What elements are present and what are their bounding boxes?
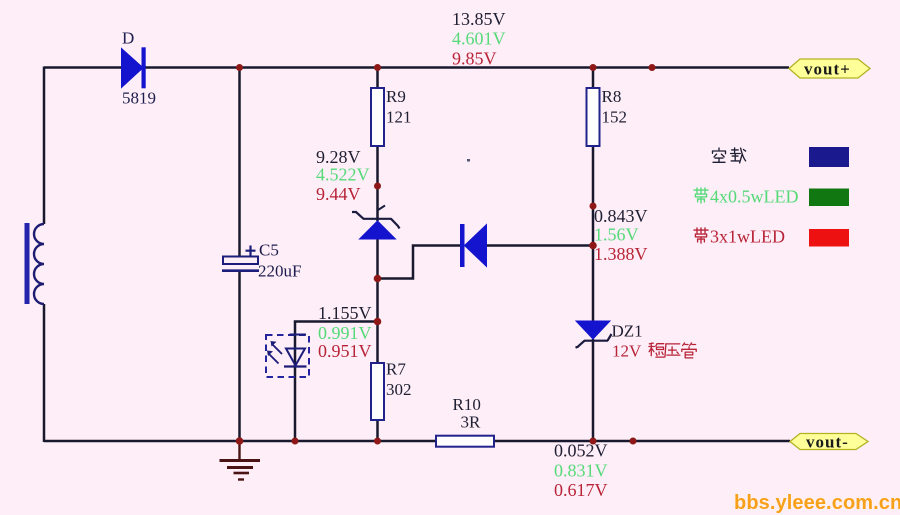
port vout- [790, 433, 868, 452]
legend swatch green [809, 189, 849, 207]
optocoupler U2 dashed box [266, 335, 309, 377]
svg-text:302: 302 [386, 380, 412, 399]
resistor R10 [436, 436, 494, 447]
legend label 空载 [713, 148, 746, 163]
junction dot top R8 [590, 64, 597, 71]
junction dot bottom DZ1 [590, 438, 597, 445]
svg-text:0.843V: 0.843V [594, 206, 648, 226]
resistor R9 [371, 88, 384, 146]
wire optocoupler branch [295, 322, 378, 442]
voltage labels bottom (0.052V/0.831V/0.617V) [554, 441, 608, 501]
wire bottom rail [44, 440, 790, 443]
svg-text:13.85V: 13.85V [452, 9, 506, 29]
svg-text:C5: C5 [259, 241, 279, 260]
svg-text:R9: R9 [386, 87, 406, 106]
junction dot diode node [589, 242, 597, 250]
wire TL431 to middle diode [378, 246, 463, 279]
svg-text:D: D [122, 29, 134, 48]
svg-text:12V: 12V [612, 342, 642, 361]
svg-text:152: 152 [602, 108, 628, 127]
svg-text:1.56V: 1.56V [594, 225, 639, 245]
voltage labels at R9 bottom (9.28V/4.522V/9.44V) [316, 147, 370, 204]
svg-text:3x1wLED: 3x1wLED [710, 227, 785, 247]
junction dot bottom R7 [374, 438, 381, 445]
zener diode DZ1 [576, 321, 612, 348]
voltage labels mid-right (0.843V/1.56V/1.388V) [594, 206, 648, 264]
wire left vertical [43, 67, 46, 443]
junction dot bottom C5 [236, 437, 244, 445]
svg-text:R7: R7 [386, 360, 406, 379]
legend swatch navy (no load) [809, 147, 849, 167]
watermark bbs.yleee.com.cn [734, 492, 900, 515]
svg-text:9.85V: 9.85V [452, 49, 497, 69]
capacitor C5 [222, 246, 259, 271]
legend label 带3x1wLED [694, 227, 785, 247]
svg-text:4.522V: 4.522V [316, 165, 370, 185]
wire middle diode to R8 column [486, 244, 593, 247]
TL431 shunt regulator U1 [352, 206, 400, 240]
junction dot top right [649, 64, 656, 71]
svg-text:0.831V: 0.831V [554, 461, 608, 481]
junction dot top R9 [374, 64, 381, 71]
svg-text:vout-: vout- [806, 433, 849, 452]
transformer winding L1 coil [34, 224, 44, 304]
wire C5 column [238, 68, 241, 442]
svg-text:5819: 5819 [122, 89, 156, 108]
svg-text:R8: R8 [602, 87, 622, 106]
svg-text:1.388V: 1.388V [594, 244, 648, 264]
svg-text:0.951V: 0.951V [318, 341, 372, 361]
ground [220, 441, 261, 480]
svg-text:220uF: 220uF [258, 262, 301, 281]
wire top rail [44, 66, 789, 69]
legend swatch red [809, 229, 849, 247]
optocoupler light arrows [267, 341, 282, 364]
svg-text:4.601V: 4.601V [452, 29, 506, 49]
junction dot bottom right [630, 438, 637, 445]
svg-text:DZ1: DZ1 [612, 322, 643, 341]
label 稳压管 [649, 343, 696, 358]
junction dot opto branch node [374, 318, 382, 326]
middle diode D2 [460, 224, 487, 267]
wire R8/DZ1 column [592, 68, 595, 442]
junction dot R8 bottom node [590, 203, 597, 210]
voltage labels opto (1.155V/0.991V/0.951V) [318, 303, 372, 361]
svg-text:9.44V: 9.44V [316, 184, 361, 204]
svg-text:4x0.5wLED: 4x0.5wLED [710, 187, 799, 207]
svg-text:0.052V: 0.052V [554, 441, 608, 461]
port vout+ [789, 59, 870, 79]
svg-text:vout+: vout+ [804, 60, 851, 79]
junction dot R9 bottom node [374, 183, 381, 190]
optocoupler LED [284, 335, 307, 367]
svg-text:121: 121 [386, 108, 412, 127]
svg-text:3R: 3R [461, 413, 482, 432]
diode D 5819 [122, 47, 146, 88]
stray speck [467, 159, 470, 162]
svg-text:1.155V: 1.155V [318, 303, 372, 323]
legend label 带4x0.5wLED [694, 187, 799, 207]
resistor R8 [587, 88, 600, 146]
wire R9/R7 column [376, 68, 379, 442]
junction dot TL431 anode node [374, 275, 382, 283]
junction dot top C5 [236, 64, 243, 71]
resistor R7 [371, 363, 384, 420]
svg-text:R10: R10 [453, 395, 481, 414]
svg-text:0.617V: 0.617V [554, 480, 608, 500]
voltage labels top (13.85V/4.601V/9.85V) [452, 9, 506, 69]
svg-text:0.991V: 0.991V [318, 323, 372, 343]
transformer core bar [25, 223, 30, 304]
junction dot bottom opto [292, 438, 299, 445]
